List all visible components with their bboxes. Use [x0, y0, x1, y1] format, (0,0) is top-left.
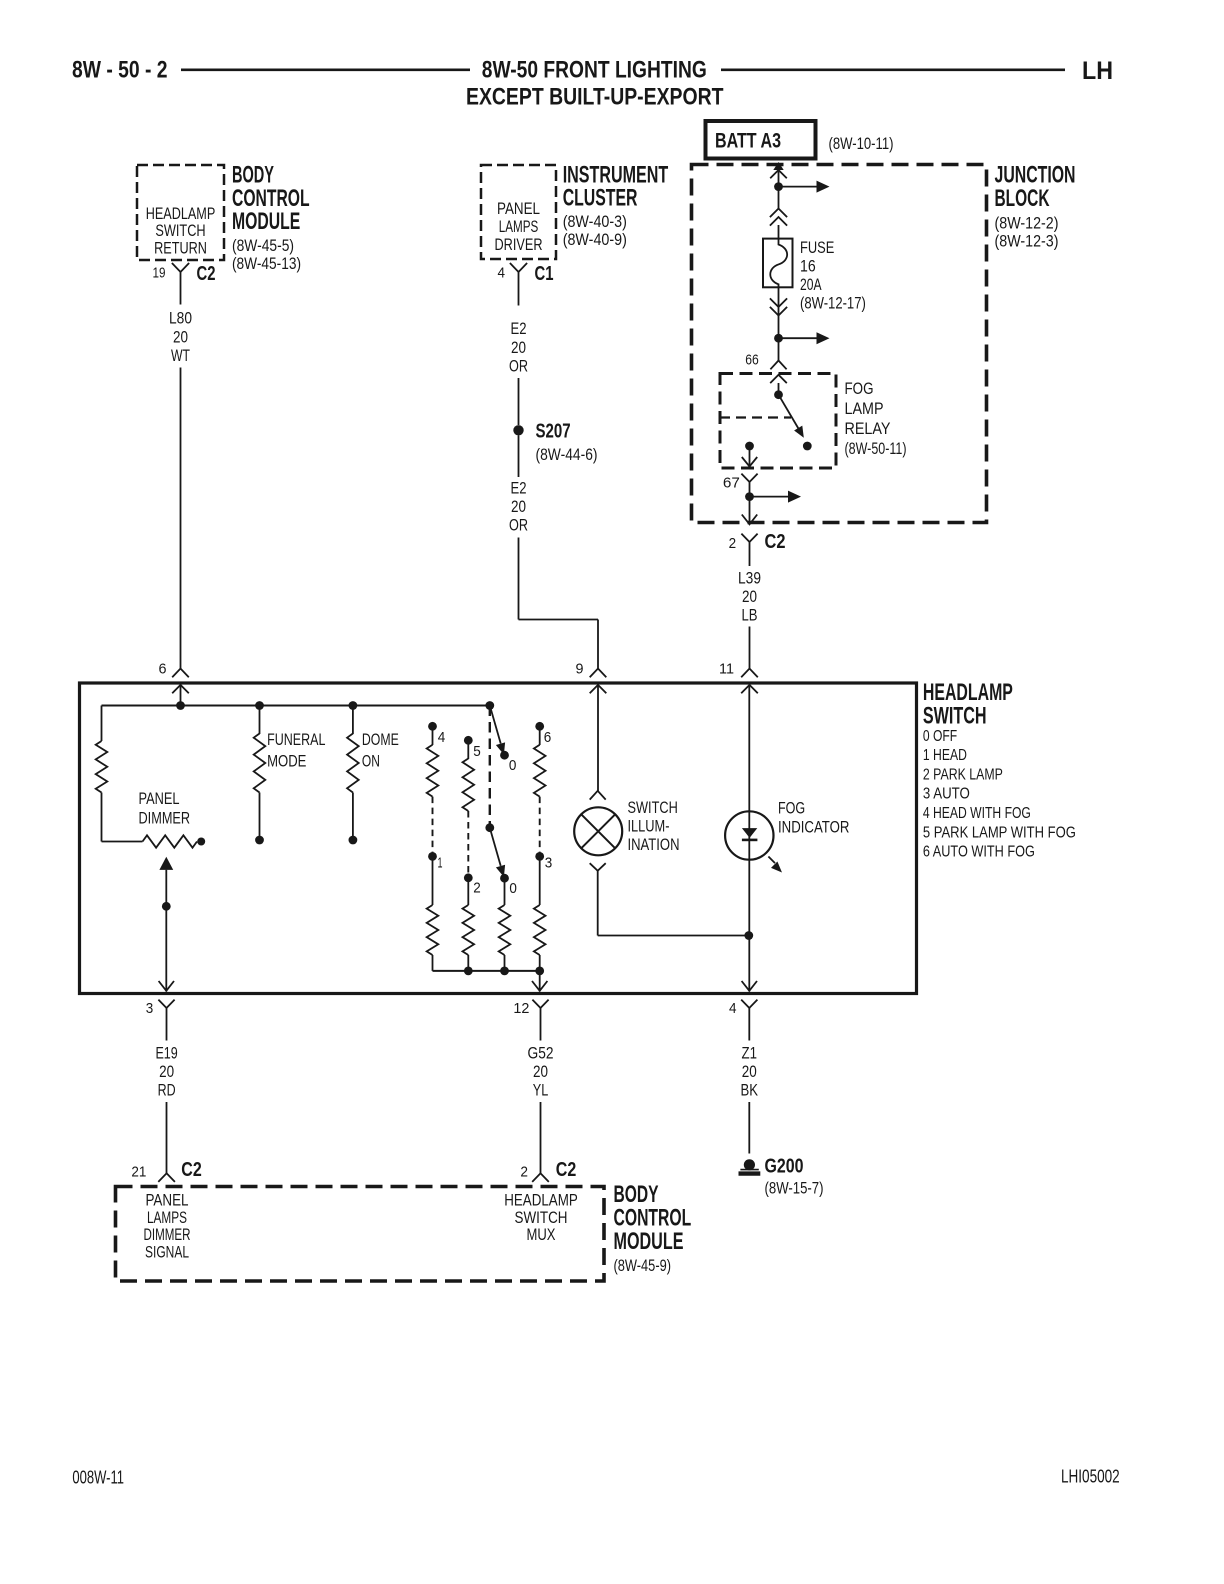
svg-text:ON: ON: [362, 752, 380, 771]
wire connector to fuse: [778, 225, 780, 239]
output bus dot 0: [500, 967, 509, 976]
footer sheet number: [72, 1468, 124, 1488]
relay contact output: [745, 442, 754, 451]
svg-text:20: 20: [742, 587, 757, 606]
wire label E19 20 RD: [155, 1044, 177, 1100]
svg-text:S207: S207: [536, 421, 571, 443]
contact 0 bottom label: [509, 880, 517, 897]
pin 6 chevron outside: [172, 669, 189, 678]
reference (8W-10-11): [829, 134, 894, 153]
contact 2 dot: [464, 873, 473, 882]
wire output bus to pin 12: [539, 971, 541, 992]
svg-text:6: 6: [159, 661, 167, 678]
svg-text:8W-50 FRONT LIGHTING: 8W-50 FRONT LIGHTING: [482, 57, 707, 84]
wire pin 4 down: [748, 1014, 750, 1041]
resistor position 4: [427, 726, 439, 796]
bus junction pin6: [176, 701, 185, 710]
dashed wire 4 to 1: [432, 797, 434, 853]
resistor left fixed: [96, 741, 108, 793]
connector C1 label: [535, 263, 554, 285]
svg-text:OR: OR: [509, 516, 528, 535]
svg-text:2: 2: [520, 1164, 528, 1181]
svg-text:(8W-45-13): (8W-45-13): [232, 254, 301, 273]
svg-text:LAMP: LAMP: [845, 399, 884, 418]
svg-text:2: 2: [729, 535, 737, 552]
branch arrow right at 67: [750, 491, 802, 503]
relay contact NO: [803, 442, 812, 451]
node splice at fuse feed: [774, 182, 783, 191]
svg-text:67: 67: [723, 475, 740, 492]
fuse element curve: [770, 239, 787, 288]
connector C2 pin2 chevron: [532, 1173, 549, 1182]
svg-text:(8W-12-17): (8W-12-17): [800, 294, 866, 313]
connector C2 label bottom left: [181, 1159, 202, 1181]
svg-text:BATT A3: BATT A3: [715, 130, 781, 153]
svg-text:66: 66: [745, 352, 759, 369]
svg-text:12: 12: [513, 1000, 529, 1017]
wire label L80 20 WT: [169, 309, 192, 365]
svg-text:G200: G200: [765, 1156, 804, 1178]
contact 3 dot: [535, 852, 544, 861]
pin 19 label: [153, 265, 166, 282]
svg-text:SWITCH: SWITCH: [155, 222, 205, 240]
fog lamp relay dashed box: [720, 374, 836, 469]
pin 3 connector Y: [158, 1000, 174, 1014]
pin 11 chevron inside: [741, 685, 758, 693]
svg-text:PANEL: PANEL: [139, 789, 180, 808]
ground G200 symbol: [739, 1159, 761, 1173]
wiper junction dot: [162, 902, 171, 911]
svg-text:LH: LH: [1082, 57, 1113, 85]
pin 9 chevron inside: [590, 685, 607, 693]
pin 67 label: [723, 475, 740, 492]
wiper arm bottom: [490, 828, 505, 877]
svg-text:DOME: DOME: [362, 730, 399, 749]
svg-text:DRIVER: DRIVER: [495, 236, 543, 254]
pin 11 chevron outside: [741, 669, 758, 678]
svg-text:5 PARK LAMP WITH FOG: 5 PARK LAMP WITH FOG: [923, 824, 1076, 841]
svg-text:G52: G52: [528, 1044, 554, 1063]
wire label E2 20 OR lower: [509, 479, 528, 535]
header rule right: [721, 69, 1065, 72]
svg-text:BLOCK: BLOCK: [995, 185, 1050, 212]
wire pin4 down: [518, 280, 520, 306]
svg-text:1: 1: [438, 855, 443, 872]
svg-text:6: 6: [544, 729, 552, 746]
svg-text:C2: C2: [197, 263, 216, 285]
inline connector double chevron: [770, 209, 787, 226]
instrument cluster dashed box: [481, 165, 556, 259]
svg-text:20: 20: [511, 497, 526, 516]
svg-text:HEADLAMP: HEADLAMP: [146, 205, 216, 223]
svg-text:LHI05002: LHI05002: [1061, 1467, 1120, 1487]
svg-text:E19: E19: [155, 1044, 177, 1063]
relay wire common: [778, 383, 780, 395]
wire C2 to label L39: [749, 548, 751, 567]
bus junction funeral mode: [255, 701, 264, 710]
svg-text:21: 21: [131, 1164, 146, 1181]
splice S207 node: [513, 425, 523, 435]
wiper bus dot: [485, 701, 494, 710]
body control module dashed box (top): [137, 165, 224, 260]
svg-text:9: 9: [576, 661, 584, 678]
body control module label (bottom): [614, 1181, 692, 1275]
svg-text:SWITCH: SWITCH: [923, 703, 987, 730]
svg-text:4: 4: [729, 1000, 737, 1017]
wire E2 jog to pin 9: [519, 538, 599, 669]
panel lamps dimmer signal label: [144, 1192, 191, 1262]
fog lamp relay label: [845, 379, 907, 458]
svg-text:DIMMER: DIMMER: [139, 809, 191, 828]
svg-text:C2: C2: [765, 531, 786, 553]
body control module label (top): [232, 162, 310, 273]
wire node to connector pair: [778, 187, 780, 209]
pin 12 label bottom: [513, 1000, 529, 1017]
svg-text:HEADLAMP: HEADLAMP: [504, 1192, 578, 1210]
svg-text:OR: OR: [509, 356, 528, 375]
dashed wire 5 to 2: [467, 811, 469, 874]
wire funeral mode stem: [259, 706, 261, 735]
svg-text:DIMMER: DIMMER: [144, 1226, 191, 1244]
contact 1 dot: [428, 852, 437, 861]
svg-text:YL: YL: [533, 1081, 549, 1100]
pin 2 label bottom: [520, 1164, 528, 1181]
svg-text:(8W-12-3): (8W-12-3): [995, 232, 1059, 251]
resistor below 1: [427, 856, 439, 971]
resistor funeral mode: [254, 734, 266, 793]
contact 0 top dot: [500, 751, 509, 760]
pin 21 label: [131, 1164, 146, 1181]
svg-text:5: 5: [473, 743, 481, 760]
svg-text:RD: RD: [158, 1081, 176, 1100]
svg-text:20: 20: [159, 1062, 174, 1081]
svg-text:LAMPS: LAMPS: [499, 218, 539, 236]
funeral mode label: [267, 730, 325, 771]
wire resistor to corner: [102, 793, 143, 842]
junction block dashed boundary: [692, 165, 987, 523]
LED arrow out: [768, 857, 782, 873]
svg-text:C1: C1: [535, 263, 554, 285]
wire label L39 20 LB: [738, 569, 761, 625]
wiper arm top: [490, 706, 505, 755]
wire pin 3 down: [166, 1014, 168, 1041]
wire label G52 20 YL: [528, 1044, 554, 1100]
pin 2 label: [729, 535, 737, 552]
pin 4 label bottom: [729, 1000, 737, 1017]
header rule left: [181, 69, 470, 72]
JB exit arrow down: [742, 515, 757, 525]
switch illumination lamp: [574, 807, 622, 855]
contact 4 label: [438, 729, 446, 746]
resistor output bus: [433, 970, 540, 972]
wire label Z1 20 BK: [741, 1044, 759, 1100]
wire BATT to node: [778, 170, 780, 187]
wire pin 12 down: [540, 1014, 542, 1041]
pin 6 label: [159, 661, 167, 678]
svg-text:3 AUTO: 3 AUTO: [923, 786, 970, 803]
connector C2 label bottom mid: [556, 1159, 577, 1181]
headlamp switch return label: [146, 205, 216, 258]
svg-text:E2: E2: [511, 319, 527, 338]
connector C2 label: [765, 531, 786, 553]
svg-text:16: 16: [800, 257, 816, 276]
headlamp switch mux label: [504, 1192, 578, 1245]
pin 11 label: [719, 661, 734, 678]
svg-text:FUSE: FUSE: [800, 238, 834, 257]
wire funeral mode tail: [259, 793, 261, 841]
svg-text:FUNERAL: FUNERAL: [267, 730, 325, 749]
pin 4 label top: [498, 265, 506, 282]
wire Z1 to ground: [748, 1102, 750, 1154]
wire bus left leg down: [101, 706, 103, 742]
output bus dot 2: [464, 967, 473, 976]
branch arrow right below fuse: [779, 332, 830, 344]
svg-text:INDICATOR: INDICATOR: [778, 818, 849, 837]
connector C2 Y: [741, 534, 757, 548]
svg-text:LB: LB: [742, 606, 758, 625]
wire label E2 20 OR upper: [509, 319, 528, 375]
svg-text:MODULE: MODULE: [232, 208, 300, 235]
fog node junction: [744, 931, 753, 940]
dashed wire 6 to 3: [539, 797, 541, 853]
svg-text:ILLUM-: ILLUM-: [628, 816, 670, 835]
wire pin19 down: [180, 280, 182, 305]
svg-text:20: 20: [173, 327, 188, 346]
svg-text:20: 20: [511, 338, 526, 357]
wire lamp to fog node: [598, 871, 749, 936]
connector C2 pin 19 Y: [172, 263, 189, 280]
svg-text:PANEL: PANEL: [497, 200, 540, 218]
connector C2 label top: [197, 263, 216, 285]
contact 1 label: [438, 855, 443, 872]
pin 6 chevron inside: [172, 685, 189, 693]
svg-text:11: 11: [719, 661, 734, 678]
header page LH: [1082, 57, 1113, 85]
pin 3 label bottom: [146, 1000, 154, 1017]
fog indicator LED: [725, 811, 773, 859]
svg-text:WT: WT: [171, 346, 190, 365]
resistor below 0: [499, 878, 511, 971]
svg-text:0 OFF: 0 OFF: [923, 728, 957, 745]
pin 66 label: [745, 352, 759, 369]
svg-text:008W-11: 008W-11: [72, 1468, 124, 1488]
svg-text:4 HEAD WITH FOG: 4 HEAD WITH FOG: [923, 805, 1031, 822]
junction block label: [995, 162, 1076, 251]
body control module dashed box (bottom): [116, 1187, 605, 1282]
svg-text:PANEL: PANEL: [145, 1192, 188, 1210]
headlamp switch label: [923, 679, 1013, 730]
svg-text:(8W-10-11): (8W-10-11): [829, 134, 894, 153]
wire S207 down: [518, 436, 520, 478]
wire node to JB exit: [749, 497, 751, 524]
header subtitle EXCEPT BUILT-UP-EXPORT: [466, 83, 724, 110]
wire E2 to splice S207: [518, 378, 520, 425]
wiper lower node: [485, 823, 494, 832]
svg-text:E2: E2: [511, 479, 527, 498]
potentiometer end dot: [197, 838, 205, 846]
power source box BATT A3: [706, 121, 816, 159]
svg-text:EXCEPT BUILT-UP-EXPORT: EXCEPT BUILT-UP-EXPORT: [466, 83, 724, 110]
svg-text:3: 3: [146, 1000, 154, 1017]
svg-text:(8W-45-9): (8W-45-9): [614, 1256, 672, 1275]
node splice below fuse: [774, 334, 783, 343]
svg-text:RETURN: RETURN: [154, 240, 207, 258]
svg-text:SWITCH: SWITCH: [628, 798, 678, 817]
switch illumination label: [628, 798, 680, 854]
wire dome on stem: [352, 706, 354, 735]
wire 67 to node: [749, 488, 751, 498]
contact 5 dot: [464, 736, 473, 745]
svg-text:(8W-40-3): (8W-40-3): [563, 212, 627, 231]
pin 9 chevron outside: [590, 669, 607, 678]
svg-text:(8W-12-2): (8W-12-2): [995, 214, 1059, 233]
svg-text:Z1: Z1: [742, 1044, 758, 1063]
footer drawing id: [1061, 1467, 1120, 1487]
interior supply bus: [102, 705, 490, 707]
svg-text:BK: BK: [741, 1081, 759, 1100]
pin 4 exit chevron: [742, 981, 757, 991]
connector C2 pin21 chevron: [158, 1173, 175, 1182]
output bus dot 3: [535, 967, 544, 976]
dashed wiper common: [489, 706, 491, 828]
contact 6 label: [544, 729, 552, 746]
svg-text:20: 20: [742, 1062, 757, 1081]
svg-text:CLUSTER: CLUSTER: [563, 184, 638, 211]
dome on label: [362, 730, 399, 771]
svg-text:RELAY: RELAY: [845, 419, 891, 438]
relay coil divider dashed: [720, 416, 791, 418]
fuse 16 20A box: [763, 239, 793, 288]
header title 8W-50 FRONT LIGHTING: [482, 57, 707, 84]
wire dome on tail: [352, 793, 354, 841]
wire fog node to pin 4: [748, 936, 750, 992]
arrow up into BATT A3: [770, 162, 787, 178]
pin 66 chevron: [770, 361, 786, 370]
svg-text:(8W-45-5): (8W-45-5): [232, 236, 294, 255]
svg-text:L80: L80: [169, 309, 192, 328]
svg-text:C2: C2: [556, 1159, 577, 1181]
fuse label: [800, 238, 866, 313]
headlamp switch solid box: [80, 683, 917, 994]
switch position legend: [923, 728, 1076, 861]
svg-text:C2: C2: [181, 1159, 202, 1181]
resistor below 2: [463, 878, 475, 971]
fog indicator label: [778, 798, 849, 836]
dome on end dot: [349, 836, 358, 845]
svg-text:4: 4: [438, 729, 446, 746]
svg-text:2: 2: [473, 880, 481, 897]
wire fuse to lower connector: [778, 287, 780, 339]
contact 6 dot: [535, 722, 544, 731]
lamp connector chevron top: [590, 791, 606, 800]
svg-text:MODE: MODE: [267, 752, 306, 771]
panel dimmer label: [139, 789, 191, 827]
wiper arrow up: [159, 857, 173, 992]
relay switch arm: [779, 395, 804, 438]
contact 0 top label: [509, 757, 517, 774]
resistor below 3: [534, 856, 546, 971]
pin 12 connector Y: [532, 1000, 548, 1014]
relay common chevron: [770, 375, 787, 383]
contact 5 label: [473, 743, 481, 760]
ground G200 label: [765, 1156, 824, 1198]
svg-text:(8W-50-11): (8W-50-11): [845, 439, 907, 458]
pin 3 exit chevron: [159, 981, 174, 991]
wire pin 11 to LED: [748, 685, 750, 936]
wire L39 to pin 11: [749, 627, 751, 669]
svg-text:0: 0: [509, 880, 517, 897]
svg-text:(8W-44-6): (8W-44-6): [536, 445, 598, 464]
svg-text:MUX: MUX: [527, 1226, 556, 1244]
svg-text:SIGNAL: SIGNAL: [145, 1243, 189, 1261]
resistor dome on: [347, 734, 359, 793]
potentiometer panel dimmer: [143, 835, 198, 847]
svg-text:MODULE: MODULE: [614, 1228, 684, 1255]
svg-text:4: 4: [498, 265, 506, 282]
relay output arrow down: [742, 446, 757, 467]
svg-text:SWITCH: SWITCH: [515, 1209, 568, 1227]
branch arrow right from feed node: [779, 181, 830, 193]
pin 12 exit chevron: [532, 981, 547, 991]
svg-text:19: 19: [153, 265, 166, 282]
wire pin 9 to lamp: [597, 685, 599, 791]
contact 2 label: [473, 880, 481, 897]
svg-text:6 AUTO WITH FOG: 6 AUTO WITH FOG: [923, 844, 1035, 861]
svg-text:3: 3: [545, 855, 553, 872]
pin 4 connector Y: [741, 1000, 757, 1014]
wire E19 to C2: [166, 1102, 168, 1173]
connector C1 Y: [510, 263, 527, 280]
svg-text:8W - 50 - 2: 8W - 50 - 2: [72, 57, 168, 84]
svg-text:(8W-40-9): (8W-40-9): [563, 230, 627, 249]
contact 0 bottom dot: [500, 874, 509, 883]
svg-text:0: 0: [509, 757, 517, 774]
svg-text:INATION: INATION: [628, 835, 680, 854]
svg-text:FOG: FOG: [845, 379, 874, 398]
bus junction dome on: [349, 701, 358, 710]
wire G52 to C2: [540, 1102, 542, 1173]
svg-text:20A: 20A: [800, 275, 822, 294]
panel lamps driver label: [495, 200, 543, 254]
resistor position 5: [463, 740, 475, 811]
svg-text:(8W-15-7): (8W-15-7): [765, 1179, 824, 1198]
svg-text:FOG: FOG: [778, 798, 805, 817]
header page number 8W - 50 - 2: [72, 57, 168, 84]
pin 67 connector Y: [741, 474, 757, 488]
node splice at 67: [745, 492, 754, 501]
relay common node: [774, 390, 783, 399]
svg-text:20: 20: [533, 1062, 548, 1081]
funeral mode end dot: [255, 836, 264, 845]
wire pin6 entry to bus: [180, 685, 182, 706]
splice S207 label: [536, 421, 598, 465]
pin 9 label: [576, 661, 584, 678]
svg-text:L39: L39: [738, 569, 761, 588]
contact 4 dot: [428, 722, 437, 731]
svg-text:LAMPS: LAMPS: [147, 1209, 187, 1227]
svg-text:1 HEAD: 1 HEAD: [923, 747, 967, 764]
instrument cluster label: [563, 161, 669, 249]
contact 3 label: [545, 855, 553, 872]
inline connector double chevron down: [770, 298, 787, 315]
resistor position 6: [534, 726, 546, 796]
lamp connector chevron bottom: [590, 863, 606, 871]
svg-text:2 PARK LAMP: 2 PARK LAMP: [923, 766, 1003, 783]
wire node to relay pin 66: [778, 338, 780, 361]
wire L80 to pin 6: [180, 368, 182, 669]
